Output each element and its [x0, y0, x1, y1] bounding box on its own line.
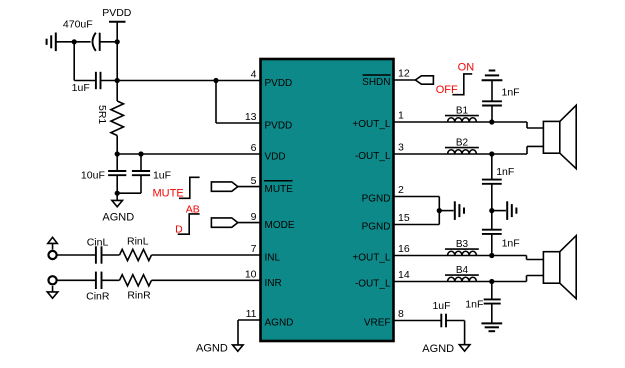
- svg-text:7: 7: [251, 243, 257, 255]
- svg-text:+OUT_L: +OUT_L: [352, 253, 391, 264]
- svg-text:4: 4: [251, 69, 257, 81]
- svg-text:1uF: 1uF: [153, 169, 171, 181]
- svg-text:12: 12: [398, 68, 410, 80]
- svg-text:OFF: OFF: [436, 84, 458, 96]
- svg-text:11: 11: [246, 308, 257, 320]
- svg-text:15: 15: [398, 212, 410, 224]
- svg-text:B3: B3: [456, 239, 469, 250]
- svg-text:CinL: CinL: [87, 236, 109, 248]
- svg-text:10uF: 10uF: [81, 169, 105, 181]
- svg-text:INL: INL: [265, 252, 281, 263]
- svg-text:2: 2: [398, 184, 404, 196]
- svg-text:PVDD: PVDD: [265, 120, 293, 131]
- svg-text:1nF: 1nF: [496, 166, 514, 178]
- svg-text:-OUT_L: -OUT_L: [355, 151, 391, 162]
- svg-text:PVDD: PVDD: [265, 78, 293, 89]
- svg-text:B2: B2: [456, 138, 469, 149]
- svg-text:5R1: 5R1: [96, 105, 108, 124]
- svg-text:RinR: RinR: [127, 290, 151, 302]
- svg-text:RinL: RinL: [127, 236, 149, 248]
- svg-text:MUTE: MUTE: [265, 184, 294, 195]
- svg-text:16: 16: [398, 243, 410, 255]
- svg-text:1: 1: [398, 110, 404, 122]
- svg-text:INR: INR: [265, 278, 282, 289]
- svg-text:1uF: 1uF: [72, 82, 90, 94]
- svg-text:14: 14: [398, 269, 410, 281]
- svg-text:1uF: 1uF: [432, 300, 450, 312]
- svg-text:AGND: AGND: [265, 317, 294, 328]
- svg-text:1nF: 1nF: [502, 237, 520, 249]
- svg-text:470uF: 470uF: [63, 18, 93, 30]
- svg-text:AGND: AGND: [196, 343, 228, 355]
- svg-text:1nF: 1nF: [502, 86, 520, 98]
- svg-text:D: D: [175, 224, 183, 236]
- svg-text:VREF: VREF: [364, 318, 391, 329]
- svg-text:5: 5: [251, 175, 257, 187]
- svg-text:AGND: AGND: [102, 211, 134, 223]
- svg-text:PGND: PGND: [362, 194, 391, 205]
- svg-text:1nF: 1nF: [465, 298, 483, 310]
- svg-text:VDD: VDD: [265, 151, 286, 162]
- svg-text:-OUT_L: -OUT_L: [355, 279, 391, 290]
- svg-text:AGND: AGND: [422, 343, 454, 355]
- svg-text:MODE: MODE: [265, 220, 295, 231]
- svg-text:3: 3: [398, 142, 404, 154]
- svg-text:CinR: CinR: [86, 291, 110, 303]
- svg-text:PGND: PGND: [362, 222, 391, 233]
- svg-text:PVDD: PVDD: [102, 7, 132, 19]
- svg-text:10: 10: [245, 269, 257, 281]
- svg-text:6: 6: [251, 142, 257, 154]
- svg-text:+OUT_L: +OUT_L: [352, 119, 391, 130]
- svg-text:SHDN: SHDN: [362, 77, 390, 88]
- svg-text:ON: ON: [458, 62, 475, 74]
- svg-text:B4: B4: [456, 265, 469, 276]
- svg-text:9: 9: [251, 211, 257, 223]
- svg-text:8: 8: [398, 308, 404, 320]
- svg-text:B1: B1: [456, 106, 469, 117]
- svg-text:13: 13: [245, 111, 257, 123]
